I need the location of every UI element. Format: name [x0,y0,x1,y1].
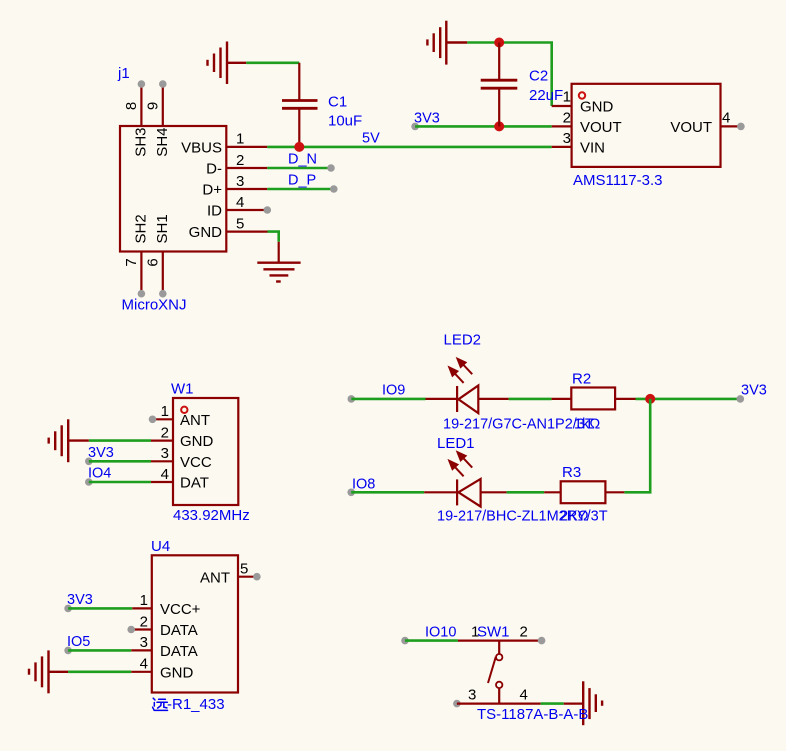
junction R2/R3 [645,394,655,404]
ground G2 (C2 top ground, bars point left) [427,21,467,65]
svg-text:VCC+: VCC+ [160,601,201,618]
svg-text:4: 4 [236,194,244,211]
module W1 body [173,398,238,505]
W1 pin 3 VCC [151,445,212,471]
svg-text:5: 5 [236,215,244,232]
pin 5 GND stub [189,215,268,241]
wire C1 top vertical [298,63,300,100]
svg-text:8: 8 [123,102,140,110]
svg-text:1: 1 [140,592,148,609]
svg-text:SW1: SW1 [477,623,510,640]
svg-text:7: 7 [123,258,140,266]
ground G5 (U4, bars point left) [29,650,68,693]
U4 value label 远-R1_433 [153,696,225,713]
svg-text:ANT: ANT [180,412,210,429]
svg-text:VOUT: VOUT [580,119,622,136]
svg-text:TS-1187A-B-A-B: TS-1187A-B-A-B [477,706,588,723]
svg-text:W1: W1 [171,381,194,398]
pin 1 VBUS stub [181,131,267,157]
svg-text:C2: C2 [529,68,548,85]
svg-text:U4: U4 [151,538,170,555]
wire 3V3 to W1 VCC [85,458,151,466]
U4 pin 1 VCC+ [132,592,200,618]
svg-text:433.92MHz: 433.92MHz [173,507,250,524]
wire D_P net [267,185,337,193]
svg-text:R2: R2 [572,370,591,387]
svg-text:4: 4 [520,686,528,703]
resistor R2 [571,388,615,410]
svg-text:C1: C1 [328,94,347,111]
capacitor C1 [282,101,318,109]
svg-text:1: 1 [563,89,571,106]
W1 pin 4 DAT [151,466,209,492]
wire IO9 to LED2 [348,395,458,403]
wire R3 to junction riser [605,491,624,493]
svg-text:R3: R3 [562,464,581,481]
svg-text:IO10: IO10 [425,624,456,640]
svg-text:2: 2 [563,110,571,127]
svg-text:IO9: IO9 [382,383,405,399]
svg-text:IO5: IO5 [67,634,90,650]
svg-text:3: 3 [468,686,476,703]
svg-text:3: 3 [563,130,571,147]
U4 pin 2 DATA [127,613,197,639]
svg-text:6: 6 [145,258,162,266]
U4 pin 4 GND [131,656,193,682]
svg-text:DATA: DATA [160,643,198,660]
svg-text:LED1: LED1 [437,435,475,452]
svg-text:SH3: SH3 [133,128,150,157]
AMS1117 pin 1 GND stub [552,89,614,116]
svg-text:AMS1117-3.3: AMS1117-3.3 [573,172,663,189]
junction C2 top [494,38,504,48]
svg-text:D-: D- [206,161,222,178]
svg-text:SH1: SH1 [154,214,171,243]
ground G4 (W1, bars point left) [49,419,89,462]
wire ground to U4 GND [68,670,131,673]
wire 3V3 to U4 VCC+ [64,605,132,613]
LED2 arrows [448,358,472,383]
pin 3 D+ stub [202,173,267,199]
svg-text:-R1_433: -R1_433 [167,696,225,713]
svg-text:2: 2 [140,613,148,630]
AMS1117 pin 3 VIN stub [552,130,605,157]
AMS1117 pin 2 VOUT stub [552,110,622,136]
pin 9 top stub [145,80,172,156]
svg-text:2KΩ: 2KΩ [560,508,589,524]
AMS1117 pin 4 VOUT stub [670,110,744,136]
wire IO8 to LED1 [347,489,457,497]
wire IO5 to U4 [64,647,131,655]
capacitor C2 [481,80,518,88]
pin 8 top stub [123,80,150,156]
W1 pin 2 GND [151,424,214,450]
svg-text:22uF: 22uF [529,87,563,104]
junction on VBUS at C1 [294,142,304,152]
U4 pin 3 DATA [131,634,198,660]
wire LED2 to R2 [478,398,571,400]
pin 7 bottom stub [123,214,150,297]
svg-text:GND: GND [180,433,214,450]
svg-text:D+: D+ [202,182,222,199]
svg-text:1: 1 [236,131,244,148]
svg-text:3V3: 3V3 [67,592,93,608]
svg-text:ANT: ANT [200,569,230,586]
svg-text:GND: GND [189,224,223,241]
ground G1 (C1 top ground, bars point left) [208,42,247,85]
ground G6 (SW1, bars point right) [583,681,602,725]
svg-text:VBUS: VBUS [181,140,222,157]
resistor R3 [561,481,606,503]
svg-text:3: 3 [161,445,169,462]
svg-text:3V3: 3V3 [88,445,114,461]
junction 3V3 at C2 [494,121,504,131]
svg-text:DAT: DAT [180,475,209,492]
SW1 bottom wire to ground [453,700,583,708]
wire junction down to R3 [624,399,650,492]
svg-text:2: 2 [520,623,528,640]
svg-text:1kΩ: 1kΩ [574,417,600,433]
svg-text:19-217/G7C-AN1P2/3T: 19-217/G7C-AN1P2/3T [443,417,594,433]
svg-text:4: 4 [161,466,169,483]
svg-text:DATA: DATA [160,622,198,639]
svg-text:GND: GND [580,99,614,116]
wire C2 bottom to 3V3 junction [498,88,500,126]
svg-text:LED2: LED2 [444,332,482,349]
svg-text:VOUT: VOUT [670,119,712,136]
U4 pin 5 ANT [200,561,261,587]
svg-text:D_P: D_P [288,173,316,189]
svg-text:4: 4 [140,656,148,673]
W1 pin 1 ANT [149,403,210,429]
wire GND W1 [89,439,151,442]
svg-text:j1: j1 [117,65,130,82]
wire GND pin5 to ground [268,232,279,263]
connector J1 body [120,126,226,252]
svg-text:3V3: 3V3 [741,383,767,399]
pin 2 D- stub [206,152,267,178]
svg-text:2: 2 [236,152,244,169]
svg-text:5V: 5V [362,131,380,147]
svg-text:10uF: 10uF [328,113,362,130]
svg-text:GND: GND [160,664,194,681]
svg-text:MicroXNJ: MicroXNJ [122,297,187,314]
svg-text:1: 1 [161,403,169,420]
wire LED1 to R3 [481,491,561,493]
svg-text:D_N: D_N [288,152,317,168]
LED1 arrows [448,451,472,476]
wire R2 to junction [615,395,744,403]
svg-text:SH2: SH2 [133,214,150,243]
pin 6 bottom stub [145,214,172,297]
regulator U AMS1117-3.3 body [572,84,721,167]
svg-text:2: 2 [161,424,169,441]
LED2 [457,386,478,414]
svg-text:IO8: IO8 [352,476,375,492]
module U4 body [152,555,238,692]
svg-text:VCC: VCC [180,454,212,471]
wire C1 bottom to VBUS junction [298,108,300,147]
svg-text:IO4: IO4 [88,466,111,482]
pin 4 ID stub [207,194,271,220]
switch SW1 [488,641,502,704]
wire C2 top vertical [498,43,500,81]
svg-text:9: 9 [145,102,162,110]
ground G3 (below J1, bars point down) [257,263,300,282]
svg-text:ID: ID [207,203,222,220]
svg-text:3: 3 [236,173,244,190]
svg-text:SH4: SH4 [154,128,171,157]
wire D_N net [267,164,335,172]
wire 3V3 to VOUT [411,123,551,131]
svg-text:5: 5 [240,561,248,578]
wire IO4 to W1 DAT [85,478,151,486]
wire ground to C2 top and AMS GND pin [467,43,551,107]
wire IO10 to SW1 [401,637,545,645]
wire 5V net (VBUS to VIN) [267,146,551,149]
wire ground to C1 top [246,61,299,64]
svg-text:VIN: VIN [580,140,605,157]
LED1 [457,479,481,507]
svg-text:4: 4 [722,110,730,127]
svg-text:3: 3 [140,634,148,651]
